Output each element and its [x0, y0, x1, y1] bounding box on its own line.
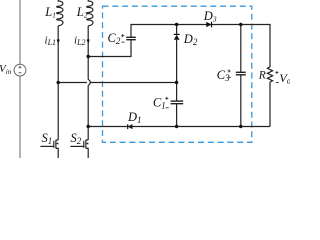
- svg-text:R: R: [258, 70, 266, 82]
